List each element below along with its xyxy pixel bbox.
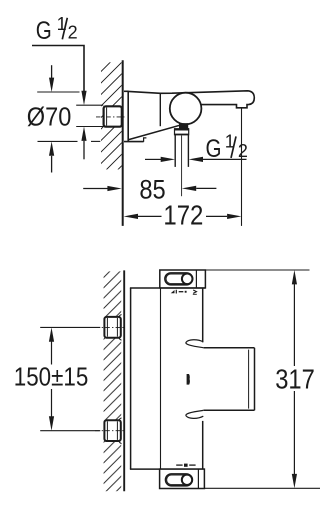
G1/2 pipe left arrow xyxy=(145,157,175,162)
white clear behind nuts (view 2) xyxy=(120,314,123,445)
temperature scale markings (view 2 top) xyxy=(171,290,197,295)
leader arrowhead down xyxy=(81,91,86,105)
bottom nut centerline (view 2) xyxy=(95,430,126,432)
wall hatching (view 2) xyxy=(104,271,122,491)
spout arm (view 1) xyxy=(160,91,254,108)
washer hooks top nut (view 2) xyxy=(119,315,122,341)
dim 317 bottom extension line xyxy=(204,487,320,489)
top union nut (view 2) xyxy=(104,317,120,338)
top knob pill (view 2) xyxy=(165,273,193,285)
nut bottom extension line xyxy=(76,126,103,128)
escutcheon flange (view 1) xyxy=(124,91,146,142)
svg-text:150±15: 150±15 xyxy=(14,363,89,391)
body outline (view 2) xyxy=(130,288,206,469)
svg-text:Ø70: Ø70 xyxy=(27,104,72,132)
logo mark (view 2) xyxy=(187,374,190,385)
svg-text:317: 317 xyxy=(275,363,315,394)
union nut in wall (view 1) xyxy=(104,106,122,126)
dim 317 top extension line xyxy=(205,269,309,271)
wall surface line (view 1) xyxy=(122,60,124,226)
dim 150 top extension line xyxy=(40,326,100,328)
dim 85 left arrow xyxy=(83,186,122,191)
leader line from G1/2 to nut (view 1) xyxy=(32,46,84,93)
fraction slash (top label) xyxy=(62,18,67,40)
svg-text:2: 2 xyxy=(68,23,78,43)
extension line from outlet (172 right) xyxy=(241,108,243,226)
washer hooks bottom nut (view 2) xyxy=(119,418,122,444)
diagonal strut bottom of body (view 1) xyxy=(128,125,180,140)
nut top extension line xyxy=(76,104,103,106)
pipe centerline (view 1) xyxy=(181,136,183,197)
dim 150 vertical line + arrows xyxy=(49,327,54,430)
nut up arrow xyxy=(81,127,86,160)
top knob box (view 2) xyxy=(160,270,206,288)
shower outlet connector block (view 1) xyxy=(174,123,189,135)
escutcheon cone top edge (view 1) xyxy=(128,91,160,93)
bottom knob pill (view 2) xyxy=(166,474,193,486)
svg-text:2: 2 xyxy=(238,141,248,161)
dia70 top extension line xyxy=(37,91,79,93)
flow scale markings (view 2 bottom) xyxy=(176,464,195,467)
label G 1/2 (top left) xyxy=(36,14,78,45)
dia70 top arrow xyxy=(49,65,54,92)
dim 317 vertical line + arrows xyxy=(292,270,297,488)
top nut centerline (view 2) xyxy=(95,326,126,328)
svg-text:G: G xyxy=(36,17,52,45)
wall surface line (view 2) xyxy=(123,270,125,491)
fraction slash (pipe label) xyxy=(231,136,236,158)
dia70 bottom extension line xyxy=(38,140,101,142)
dim 85 right arrow xyxy=(182,186,217,191)
bottom knob box (view 2) xyxy=(160,469,205,488)
cone right edge (view 1) xyxy=(159,93,161,127)
dim 172 line left xyxy=(124,214,162,219)
wall hatching (view 1) xyxy=(101,62,122,169)
thermostat body circle (view 1) xyxy=(170,93,202,125)
svg-text:85: 85 xyxy=(139,175,165,205)
spout bottom curl (view 2) xyxy=(186,410,203,418)
label G 1/2 (pipe) xyxy=(206,131,248,163)
shower outlet pipe (view 1) xyxy=(175,135,188,167)
spout top curl (view 2) xyxy=(186,340,203,348)
G1/2 pipe right arrow with underline xyxy=(189,157,247,162)
bottom union nut (view 2) xyxy=(104,420,120,441)
dim 172 line right xyxy=(206,214,242,219)
svg-text:172: 172 xyxy=(163,200,203,231)
nut centerline (dash-dot, view 1) xyxy=(96,116,125,118)
dim 150 bottom extension line xyxy=(40,430,100,432)
spout (view 2) xyxy=(203,348,254,411)
dia70 bottom arrow xyxy=(49,141,54,172)
